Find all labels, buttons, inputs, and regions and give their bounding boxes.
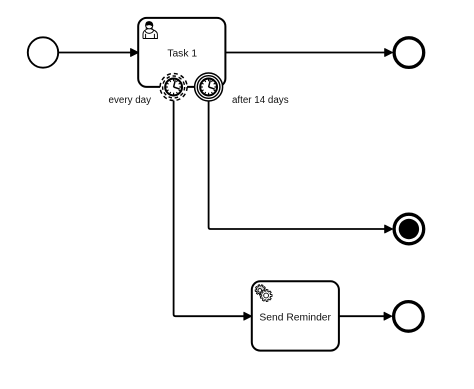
- service task gear icon: [255, 285, 272, 302]
- end event (bottom): [394, 302, 424, 332]
- terminate end event: [394, 214, 424, 244]
- wire: sequence flow interrupting timer to terminate end event: [209, 101, 393, 233]
- user task icon: [143, 21, 157, 38]
- start event: [28, 37, 58, 67]
- svg-text:after 14 days: after 14 days: [232, 95, 289, 106]
- svg-text:Send Reminder: Send Reminder: [259, 312, 331, 323]
- wire: sequence flow Send Reminder to bottom end event: [339, 312, 392, 320]
- boundary timer event T2 (interrupting): [195, 73, 223, 101]
- end event (top): [394, 38, 424, 68]
- user task Task 1: [138, 18, 225, 87]
- service task Send Reminder: [252, 281, 339, 350]
- svg-text:Task 1: Task 1: [167, 49, 197, 60]
- svg-text:every day: every day: [109, 95, 152, 106]
- wire: sequence flow Task 1 to top end event: [225, 49, 392, 57]
- wire: sequence flow start to Task 1: [59, 49, 138, 57]
- boundary timer event T1 (non-interrupting, dashed): [160, 74, 187, 101]
- wire: sequence flow non-interrupting timer to Send Reminder: [174, 101, 252, 321]
